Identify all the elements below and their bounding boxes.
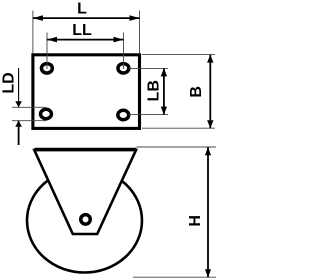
svg-text:LD: LD — [1, 72, 18, 93]
svg-text:B: B — [188, 86, 205, 98]
svg-text:H: H — [187, 215, 204, 227]
svg-text:LB: LB — [146, 80, 163, 101]
svg-text:L: L — [77, 1, 87, 18]
svg-text:LL: LL — [72, 22, 92, 39]
